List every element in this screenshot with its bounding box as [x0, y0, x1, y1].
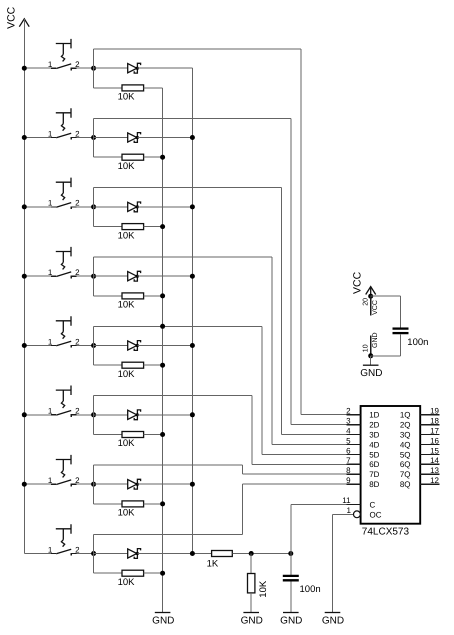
- diode D7 (schottky): [128, 479, 141, 489]
- wire: resistor R2 to GND bus: [144, 156, 163, 158]
- svg-text:5: 5: [346, 436, 351, 445]
- node 1 junction: [91, 66, 96, 71]
- wire: node 4 to diode D4: [94, 275, 128, 277]
- svg-text:GND: GND: [372, 332, 379, 348]
- wire: switch S6 to node 6: [76, 414, 93, 416]
- wire: data line row 1 horizontal: [94, 48, 301, 50]
- svg-text:VCC: VCC: [351, 271, 363, 294]
- op IC U1 74LCX573 body: [361, 406, 421, 538]
- wire: diode D7 cathode to strobe bus: [137, 483, 192, 485]
- svg-text:10K: 10K: [118, 230, 136, 241]
- ground (C1): [280, 613, 302, 627]
- node 3 junction: [91, 204, 96, 209]
- svg-text:10K: 10K: [258, 580, 269, 598]
- wire: node 8 riser to data line 8D: [93, 534, 95, 553]
- wire: resistor R4 to GND bus: [144, 295, 163, 297]
- wire: data line row 6 horizontal: [94, 395, 252, 397]
- wire: data line row 5 vertical to pin 6: [261, 326, 263, 454]
- svg-text:1K: 1K: [207, 559, 219, 570]
- svg-text:OC: OC: [370, 510, 382, 519]
- svg-text:3D: 3D: [369, 430, 379, 439]
- svg-text:1D: 1D: [369, 411, 379, 420]
- wire: resistor R6 to GND bus: [144, 434, 163, 436]
- wire: data line row 7 horizontal: [94, 464, 243, 466]
- node 2 junction: [91, 135, 96, 140]
- svg-text:100n: 100n: [300, 584, 321, 595]
- wire: switch S2 to node 2: [76, 137, 93, 139]
- wire: node 5 riser to data line 5D: [93, 326, 95, 345]
- node 8 junction: [91, 551, 96, 556]
- svg-text:8: 8: [346, 466, 351, 475]
- svg-text:20: 20: [362, 298, 369, 306]
- svg-text:10K: 10K: [118, 161, 136, 172]
- junction GND bus row 6: [160, 432, 165, 437]
- U1 pin 4 (3D): [346, 426, 380, 439]
- svg-text:2: 2: [346, 407, 351, 416]
- wire: data line row 8 vertical to pin 9: [241, 484, 243, 534]
- junction: RC node: [288, 551, 293, 556]
- ground (IC power): [360, 365, 382, 379]
- wire: data line row 2 into IC pin 3: [291, 424, 361, 426]
- svg-text:11: 11: [342, 496, 351, 505]
- wire: node 3 to resistor R3: [93, 207, 95, 227]
- U1 pin 2 (1D): [346, 407, 380, 420]
- wire: rail to switch S3: [24, 206, 51, 208]
- svg-text:10K: 10K: [118, 92, 136, 103]
- wire: diode D2 cathode to strobe bus: [137, 137, 192, 139]
- ground (OC): [322, 613, 344, 627]
- wire: capacitor C1 to GND: [290, 582, 292, 613]
- svg-text:10K: 10K: [118, 438, 136, 449]
- svg-text:GND: GND: [152, 615, 174, 626]
- junction GND bus row 8: [160, 571, 165, 576]
- wire: data line row 1 into IC pin 2: [301, 414, 361, 416]
- wire: node 1 to resistor R1: [93, 68, 95, 88]
- wire: diode D1 cathode to strobe bus: [137, 67, 192, 69]
- wire: data line row 4 into IC pin 5: [272, 444, 361, 446]
- junction on VCC rail row 1: [22, 66, 27, 71]
- wire: rail to switch S7: [24, 483, 51, 485]
- svg-text:GND: GND: [241, 615, 263, 626]
- svg-text:GND: GND: [280, 615, 302, 626]
- U1 pin 12 (8Q): [400, 476, 440, 489]
- wire: node 5 to resistor R5: [93, 346, 95, 366]
- wire: node 3 riser to data line 3D: [93, 188, 95, 207]
- junction on VCC rail row 3: [22, 204, 27, 209]
- svg-text:17: 17: [430, 426, 439, 435]
- wire: RC node down to capacitor C1: [290, 554, 292, 575]
- wire: data line row 7 into IC pin 8: [242, 473, 360, 475]
- U1 pin 6 (5D): [346, 446, 380, 459]
- svg-text:74LCX573: 74LCX573: [362, 527, 410, 538]
- svg-text:19: 19: [430, 407, 439, 416]
- switch S5 (pushbutton, pins 1-2): [48, 316, 80, 348]
- junction GND bus row 7: [160, 501, 165, 506]
- svg-text:2D: 2D: [369, 421, 379, 430]
- switch S7 (pushbutton, pins 1-2): [48, 455, 80, 487]
- junction: GND pin 10: [368, 353, 373, 358]
- wire: data line row 1 vertical to pin 2: [300, 49, 302, 415]
- ground (GND bus): [152, 613, 174, 627]
- wire: node 6 riser to data line 6D: [93, 396, 95, 415]
- svg-text:14: 14: [430, 456, 439, 465]
- node 5 junction: [91, 343, 96, 348]
- diode D6 (schottky): [128, 410, 141, 420]
- resistor R3 10K: [118, 224, 144, 242]
- wire: diode D6 cathode to strobe bus: [137, 414, 192, 416]
- U1 pin 16 (4Q): [400, 436, 440, 449]
- junction: 10K pulldown tap: [249, 551, 254, 556]
- wire: node 5 to diode D5: [94, 345, 128, 347]
- svg-text:13: 13: [430, 466, 439, 475]
- svg-text:GND: GND: [360, 368, 382, 379]
- node 6 junction: [91, 412, 96, 417]
- node 4 junction: [91, 274, 96, 279]
- diode D3 (schottky): [128, 202, 141, 212]
- svg-text:2Q: 2Q: [400, 421, 411, 430]
- resistor R7 10K: [118, 501, 144, 519]
- switch S4 (pushbutton, pins 1-2): [48, 247, 80, 279]
- junction: VCC pin 20: [368, 294, 373, 299]
- svg-text:6: 6: [346, 446, 351, 455]
- wire: node 1 to diode D1: [94, 67, 128, 69]
- diode D2 (schottky): [128, 133, 141, 143]
- svg-text:6Q: 6Q: [400, 460, 411, 469]
- resistor R4 10K: [118, 293, 144, 311]
- U1 pin 9 (8D): [346, 476, 380, 489]
- wire: VCC rail vertical: [23, 19, 25, 554]
- wire: data line row 4 horizontal: [94, 256, 272, 258]
- svg-text:10: 10: [362, 344, 369, 352]
- U1 pin 19 (1Q): [400, 407, 440, 420]
- wire: diode D5 cathode to strobe bus: [137, 345, 192, 347]
- wire: diode strobe bus vertical: [191, 68, 193, 553]
- wire: resistor R7 to GND bus: [144, 503, 163, 505]
- svg-text:C: C: [370, 501, 376, 510]
- svg-text:10K: 10K: [118, 577, 136, 588]
- wire: 10K to GND: [250, 593, 252, 613]
- capacitor C2 100n: [393, 329, 429, 348]
- wire: rail to switch S5: [24, 345, 51, 347]
- junction strobe bus row 3: [190, 204, 195, 209]
- node 7 junction: [91, 482, 96, 487]
- wire: resistor R3 to GND bus: [144, 226, 163, 228]
- wire: node 8 to diode D8: [94, 553, 128, 555]
- wire: data line row 4 vertical to pin 5: [271, 257, 273, 445]
- wire: resistor R1 to GND bus: [144, 87, 163, 89]
- wire: data line row 8 into IC pin 9: [242, 483, 360, 485]
- junction GND bus row 5: [160, 363, 165, 368]
- junction on VCC rail row 2: [22, 135, 27, 140]
- supply symbol VCC (left rail): [6, 6, 30, 29]
- wire: node 7 riser to data line 7D: [93, 465, 95, 484]
- ground (10K): [241, 613, 263, 627]
- wire: rail to switch S1: [24, 67, 51, 69]
- wire: capacitor C2 to GND pin: [400, 334, 402, 356]
- wire: GND pin to ground: [370, 356, 372, 365]
- svg-text:9: 9: [346, 476, 351, 485]
- wire: node 2 to resistor R2: [93, 138, 95, 158]
- junction on VCC rail row 4: [22, 274, 27, 279]
- wire: resistor R5 to GND bus: [144, 364, 163, 366]
- wire: node 3 to diode D3: [94, 206, 128, 208]
- wire: rail to switch S4: [24, 275, 51, 277]
- diode D1 (schottky): [128, 63, 141, 73]
- svg-text:4D: 4D: [369, 440, 379, 449]
- U1 pin 17 (3Q): [400, 426, 440, 439]
- junction strobe bus row 2: [190, 135, 195, 140]
- junction GND bus row 3: [160, 224, 165, 229]
- switch S1 (pushbutton, pins 1-2): [48, 39, 80, 71]
- diode D5 (schottky): [128, 341, 141, 351]
- diode D4 (schottky): [128, 271, 141, 281]
- wire: node 7 to diode D7: [94, 483, 128, 485]
- wire: switch S1 to node 1: [76, 67, 93, 69]
- wire: data line row 8 horizontal: [94, 533, 243, 535]
- junction on VCC rail row 6: [22, 412, 27, 417]
- wire: switch S7 to node 7: [76, 483, 93, 485]
- wire: switch S8 to node 8: [76, 553, 93, 555]
- switch S3 (pushbutton, pins 1-2): [48, 178, 80, 210]
- U1 pin 20 VCC stub: [362, 296, 379, 315]
- wire: RC node up to latch C input: [290, 505, 292, 554]
- junction on VCC rail row 5: [22, 343, 27, 348]
- wire: data line row 3 horizontal: [94, 187, 282, 189]
- junction strobe bus row 5: [190, 343, 195, 348]
- svg-text:GND: GND: [322, 615, 344, 626]
- junction strobe bus row 6: [190, 412, 195, 417]
- wire: data line row 7 vertical to pin 8: [241, 465, 243, 474]
- svg-text:3: 3: [346, 417, 351, 426]
- wire: data line row 3 vertical to pin 4: [281, 188, 283, 435]
- wire: data line row 5 into IC pin 6: [262, 453, 361, 455]
- svg-text:VCC: VCC: [372, 300, 379, 315]
- U1 pin 3 (2D): [346, 417, 380, 430]
- U1 pin 1 (OC output enable, active low): [346, 506, 381, 520]
- U1 pin 11 (C latch enable): [342, 496, 375, 509]
- junction strobe bus row 8: [190, 551, 195, 556]
- diode D8 (schottky): [128, 549, 141, 559]
- junction strobe bus row 4: [190, 274, 195, 279]
- U1 pin 18 (2Q): [400, 417, 440, 430]
- svg-text:3Q: 3Q: [400, 430, 411, 439]
- resistor R10 10K (vertical): [248, 574, 269, 598]
- resistor R8 10K: [118, 570, 144, 588]
- junction GND bus row 4: [160, 293, 165, 298]
- resistor R1 10K: [118, 85, 144, 103]
- svg-text:7Q: 7Q: [400, 470, 411, 479]
- svg-text:7: 7: [346, 456, 351, 465]
- wire: diode D3 cathode to strobe bus: [137, 206, 192, 208]
- wire: node 4 riser to data line 4D: [93, 257, 95, 276]
- resistor R9 1K: [207, 551, 233, 570]
- resistor R2 10K: [118, 154, 144, 172]
- wire: rail to switch S6: [24, 414, 51, 416]
- capacitor C1 100n: [283, 576, 321, 595]
- wire: OC to GND: [333, 513, 354, 515]
- U1 pin 13 (7Q): [400, 466, 440, 479]
- wire: node 4 to resistor R4: [93, 276, 95, 296]
- wire: rail to switch S8: [24, 553, 51, 555]
- svg-text:10K: 10K: [118, 369, 136, 380]
- wire: GND bus vertical (resistor returns): [162, 88, 164, 613]
- U1 pin 10 GND stub: [362, 332, 379, 355]
- svg-text:10K: 10K: [118, 508, 136, 519]
- wire: rail to switch S2: [24, 137, 51, 139]
- wire: diode D8 cathode to strobe bus: [137, 553, 211, 555]
- svg-text:7D: 7D: [369, 470, 379, 479]
- svg-text:6D: 6D: [369, 460, 379, 469]
- wire: resistor R8 to GND bus: [144, 572, 163, 574]
- wire: diode D4 cathode to strobe bus: [137, 275, 192, 277]
- svg-text:1Q: 1Q: [400, 411, 411, 420]
- junction: row 5 data line on GND bus: [160, 324, 165, 329]
- wire: node 8 to resistor R8: [93, 554, 95, 574]
- supply symbol VCC (IC power): [351, 271, 375, 296]
- wire: tap down to 10K: [250, 554, 252, 574]
- U1 pin 15 (5Q): [400, 446, 440, 459]
- svg-text:VCC: VCC: [6, 6, 18, 29]
- wire: data line row 5 horizontal: [94, 325, 262, 327]
- svg-text:16: 16: [430, 436, 439, 445]
- wire: node 6 to resistor R6: [93, 415, 95, 435]
- svg-text:15: 15: [430, 446, 439, 455]
- wire: data line row 2 vertical to pin 3: [290, 118, 292, 424]
- U1 pin 8 (7D): [346, 466, 380, 479]
- svg-text:5Q: 5Q: [400, 450, 411, 459]
- resistor R5 10K: [118, 362, 144, 380]
- wire: data line row 2 horizontal: [94, 117, 292, 119]
- U1 pin 14 (6Q): [400, 456, 440, 469]
- wire: switch S3 to node 3: [76, 206, 93, 208]
- junction on VCC rail row 7: [22, 482, 27, 487]
- svg-text:18: 18: [430, 417, 439, 426]
- wire: switch S5 to node 5: [76, 345, 93, 347]
- svg-text:12: 12: [430, 476, 439, 485]
- U1 pin 7 (6D): [346, 456, 380, 469]
- svg-text:5D: 5D: [369, 450, 379, 459]
- wire: data line row 6 vertical to pin 7: [251, 396, 253, 465]
- wire: 1K to RC node: [232, 553, 290, 555]
- wire: data line row 6 into IC pin 7: [252, 463, 361, 465]
- svg-text:1: 1: [346, 506, 351, 515]
- switch S6 (pushbutton, pins 1-2): [48, 386, 80, 418]
- junction strobe bus row 7: [190, 482, 195, 487]
- wire: node 6 to diode D6: [94, 414, 128, 416]
- switch S2 (pushbutton, pins 1-2): [48, 108, 80, 140]
- svg-text:10K: 10K: [118, 300, 136, 311]
- junction GND bus row 2: [160, 155, 165, 160]
- svg-text:100n: 100n: [407, 337, 428, 348]
- wire: node 1 riser to data line 1D: [93, 49, 95, 68]
- wire: node 7 to resistor R7: [93, 484, 95, 504]
- wire: data line row 3 into IC pin 4: [282, 434, 361, 436]
- wire: node 2 riser to data line 2D: [93, 118, 95, 137]
- svg-text:8Q: 8Q: [400, 480, 411, 489]
- svg-text:8D: 8D: [369, 480, 379, 489]
- wire: node 2 to diode D2: [94, 137, 128, 139]
- wire: VCC to capacitor C2: [371, 295, 401, 297]
- svg-text:4Q: 4Q: [400, 440, 411, 449]
- svg-text:4: 4: [346, 426, 351, 435]
- wire: switch S4 to node 4: [76, 275, 93, 277]
- U1 pin 5 (4D): [346, 436, 380, 449]
- resistor R6 10K: [118, 432, 144, 450]
- switch S8 (pushbutton, pins 1-2): [48, 524, 80, 556]
